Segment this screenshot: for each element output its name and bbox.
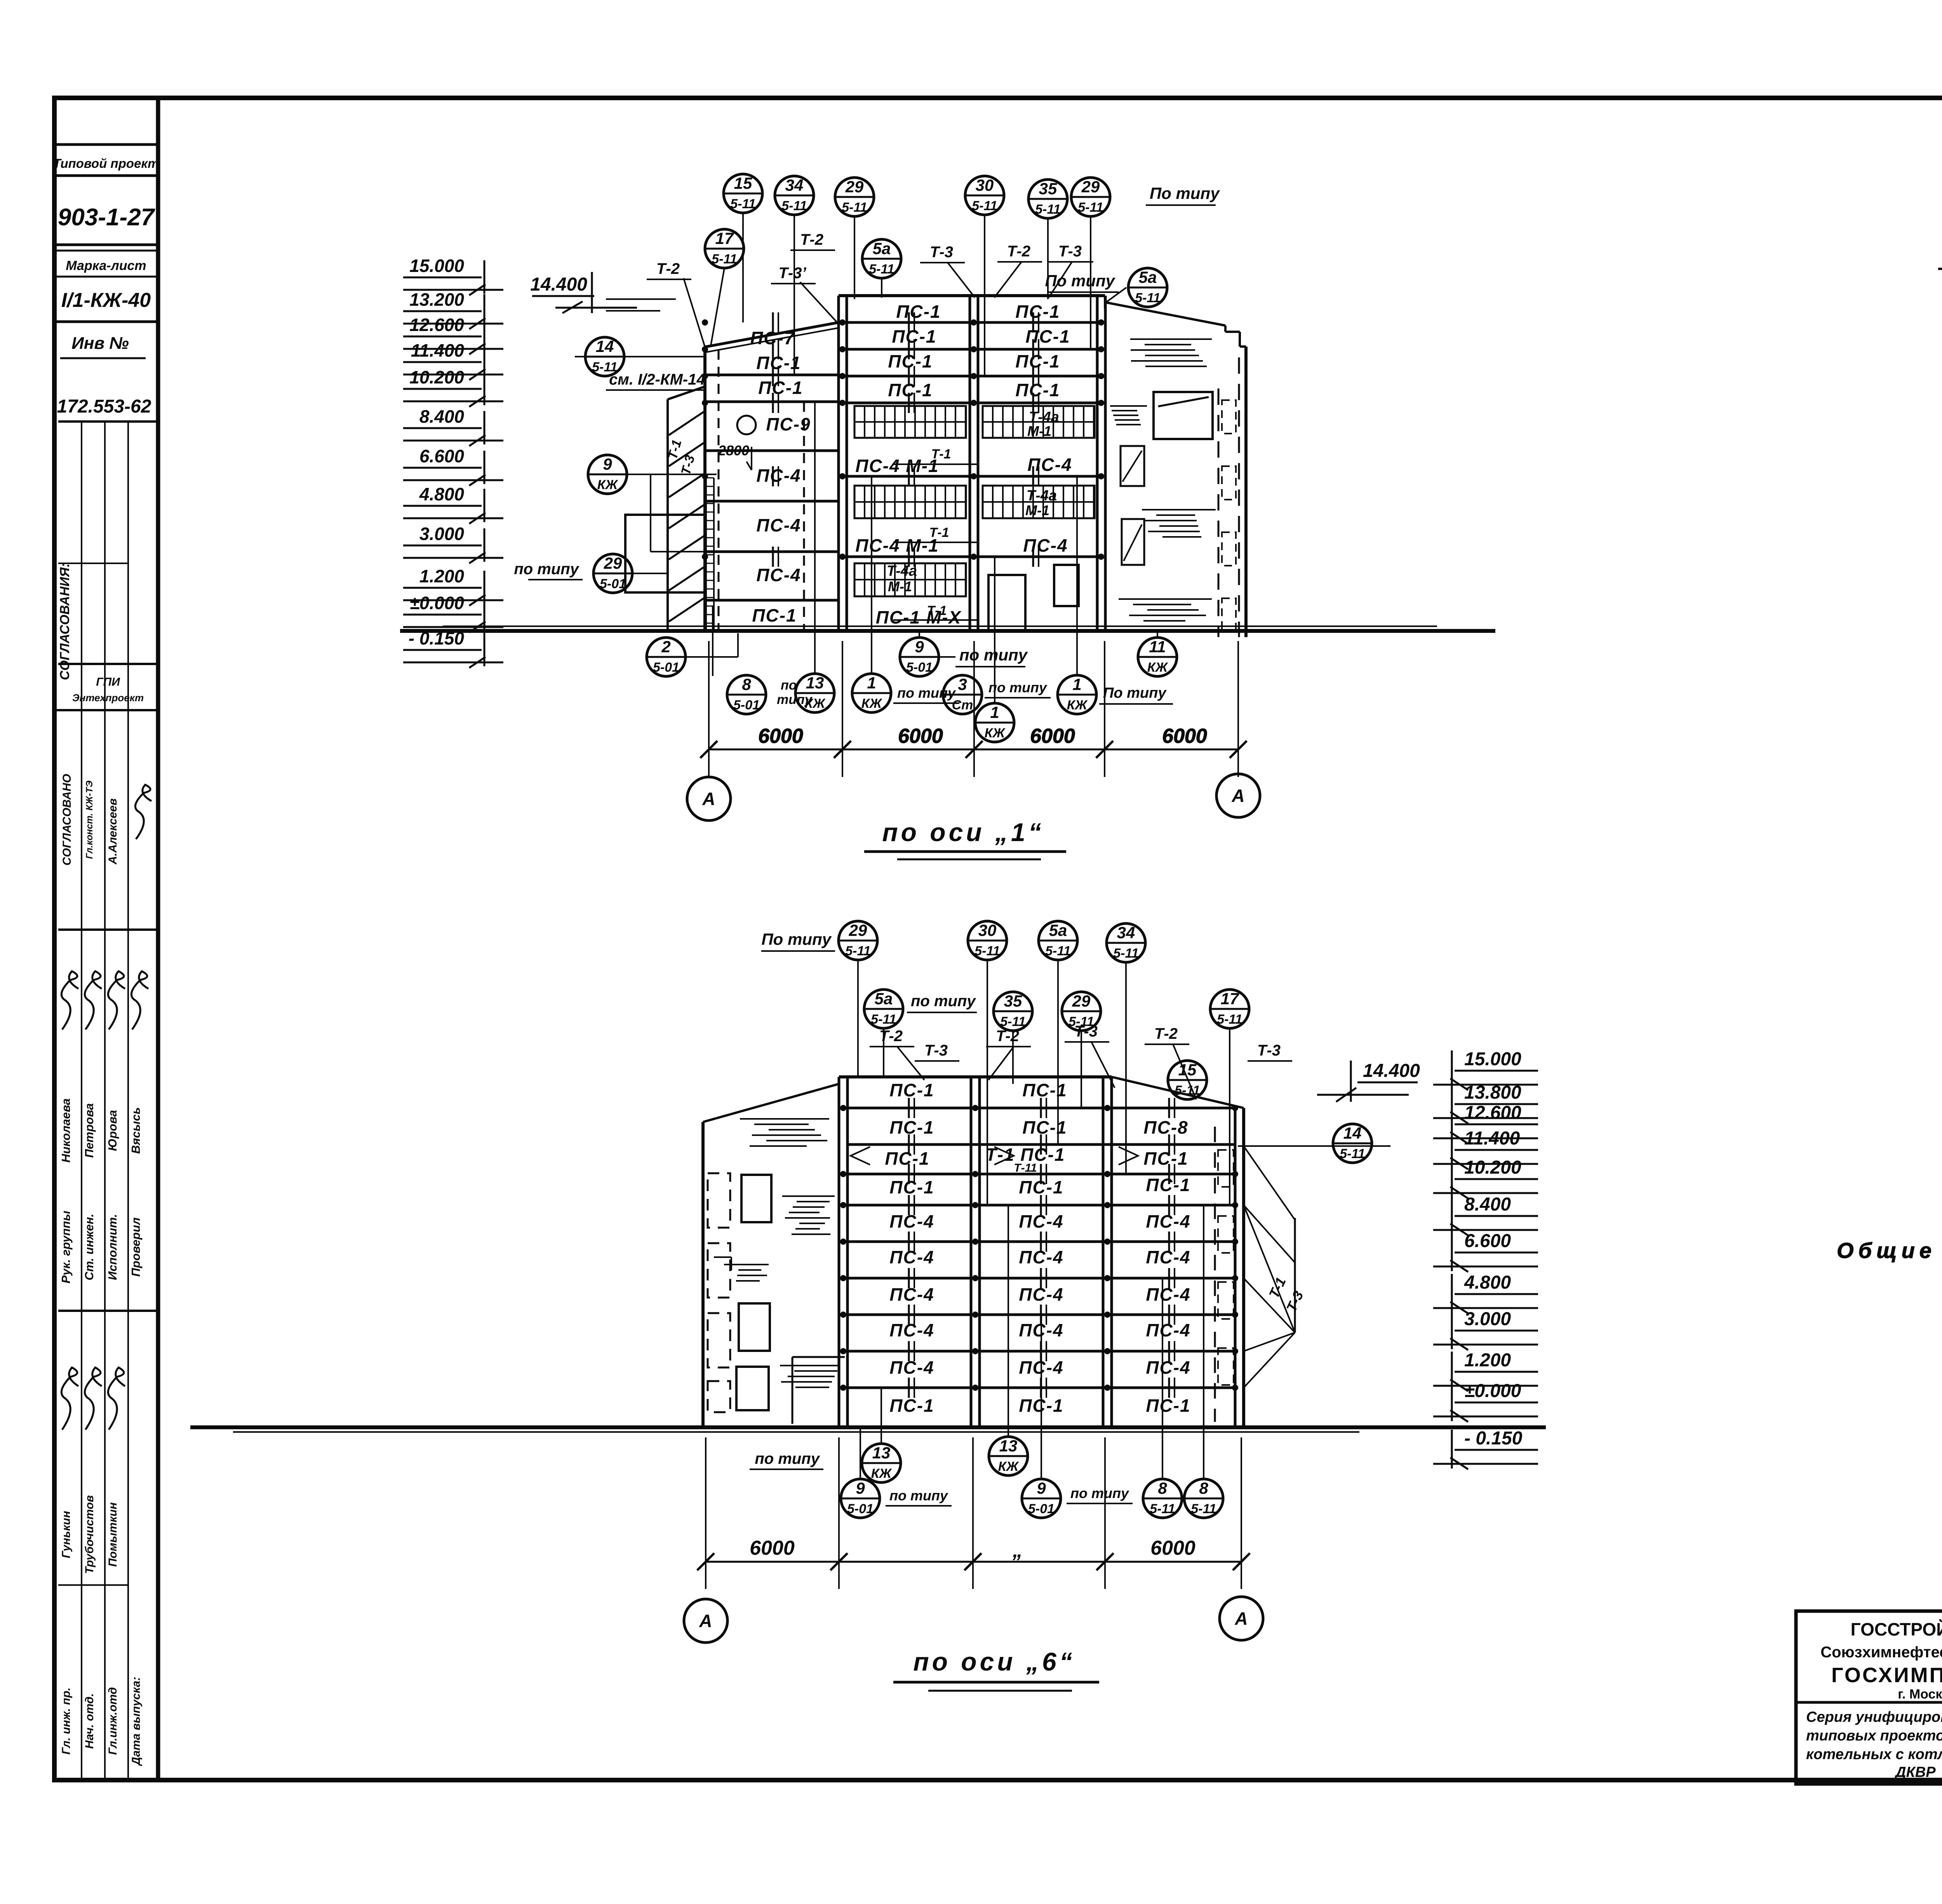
svg-text:11: 11 (1149, 638, 1166, 656)
svg-text:- 0.150: - 0.150 (1464, 1428, 1523, 1449)
title po osi 1 (864, 818, 1066, 859)
svg-text:КЖ: КЖ (985, 726, 1006, 740)
svg-text:Петрова: Петрова (82, 1103, 96, 1158)
top drawing panel grid verticals (719, 296, 1105, 631)
svg-text:12.600: 12.600 (409, 315, 464, 335)
svg-text:5-11: 5-11 (730, 197, 756, 211)
svg-text:5-11: 5-11 (1045, 944, 1071, 958)
bottom drawing building outline (703, 1077, 1244, 1427)
svg-text:35: 35 (1004, 992, 1022, 1010)
svg-text:5-11: 5-11 (1191, 1502, 1216, 1516)
bottom callouts of bottom drawing (750, 1205, 1223, 1518)
svg-text:Помыткин: Помыткин (106, 1502, 119, 1567)
svg-text:9: 9 (1037, 1479, 1046, 1497)
svg-text:ПС-4: ПС-4 (1027, 455, 1072, 475)
svg-text:Т-3: Т-3 (1058, 243, 1082, 260)
svg-text:5-11: 5-11 (1078, 200, 1103, 215)
svg-text:8.400: 8.400 (419, 406, 465, 427)
svg-text:по типу: по типу (755, 1450, 820, 1467)
svg-text:ПС-1: ПС-1 (885, 1148, 929, 1169)
svg-text:КЖ: КЖ (861, 696, 883, 711)
svg-text:Гл. инж. пр.: Гл. инж. пр. (60, 1688, 73, 1755)
svg-text:10.200: 10.200 (1464, 1157, 1521, 1178)
svg-text:ПС-4: ПС-4 (889, 1247, 934, 1267)
svg-text:по типу: по типу (897, 685, 956, 701)
svg-text:5-01: 5-01 (653, 660, 679, 675)
svg-text:М-1: М-1 (1025, 502, 1049, 518)
svg-text:М-1: М-1 (888, 578, 912, 594)
svg-text:ПС-1: ПС-1 (888, 380, 933, 400)
window band storey 1 top drawing (854, 563, 966, 596)
svg-text:±0.000: ±0.000 (1464, 1381, 1521, 1401)
window band storey 2 top drawing (854, 486, 1095, 518)
svg-text:5-11: 5-11 (781, 199, 807, 213)
svg-text:см. I/2-КМ-14: см. I/2-КМ-14 (609, 371, 705, 388)
svg-text:Вясысь: Вясысь (129, 1107, 143, 1154)
svg-text:29: 29 (1081, 178, 1100, 196)
bottom drawing mark 14.400 (1317, 1061, 1420, 1102)
bottom elevation drawing: ground line (190, 1425, 1546, 1429)
svg-text:Т-2: Т-2 (1007, 243, 1030, 260)
svg-text:Т-2: Т-2 (656, 260, 680, 277)
svg-text:типовых проектов: типовых проектов (1806, 1728, 1942, 1744)
svg-text:М-1: М-1 (1027, 423, 1051, 439)
right wing sketches top drawing (1110, 339, 1239, 637)
axis circles top drawing (687, 774, 1260, 820)
title po osi 6 (893, 1647, 1099, 1691)
svg-text:3.000: 3.000 (1464, 1309, 1511, 1329)
svg-text:ПС-4: ПС-4 (756, 515, 801, 535)
svg-text:35: 35 (1039, 179, 1057, 198)
svg-text:ПС-4 М-1: ПС-4 М-1 (855, 456, 939, 476)
svg-text:Т-3: Т-3 (930, 244, 953, 261)
svg-text:ПС-4: ПС-4 (1019, 1284, 1063, 1305)
svg-text:КЖ: КЖ (805, 696, 826, 711)
svg-text:5-11: 5-11 (1150, 1502, 1175, 1516)
svg-text:5-11: 5-11 (972, 199, 997, 213)
svg-text:14: 14 (596, 337, 614, 355)
svg-text:4.800: 4.800 (419, 484, 465, 504)
left rough wing bottom drawing (708, 1119, 845, 1424)
svg-text:ПС-1: ПС-1 (1022, 1117, 1067, 1138)
svg-text:КЖ: КЖ (998, 1459, 1020, 1474)
svg-text:ПС-1: ПС-1 (896, 301, 941, 322)
svg-text:ПС-8: ПС-8 (1143, 1117, 1188, 1138)
svg-text:8.400: 8.400 (1464, 1194, 1511, 1215)
svg-text:Союзхимнефтестройтроект: Союзхимнефтестройтроект (1820, 1644, 1942, 1661)
svg-text:5-11: 5-11 (1175, 1083, 1200, 1098)
svg-text:Т-3: Т-3 (924, 1042, 948, 1059)
svg-text:по типу: по типу (514, 561, 579, 578)
svg-text:6000: 6000 (898, 725, 943, 747)
T labels bottom drawing (870, 1023, 1292, 1061)
svg-text:ПС-4: ПС-4 (1146, 1247, 1190, 1267)
svg-text:ПС-1: ПС-1 (889, 1117, 934, 1138)
svg-text:Т-4а: Т-4а (887, 563, 917, 579)
svg-text:ПС-1: ПС-1 (758, 378, 803, 398)
panel joint ticks bottom drawing (909, 1098, 1175, 1398)
bottom drawing elevation marks column right (1433, 1049, 1538, 1090)
svg-text:Гл.конст. КЖ-ТЭ: Гл.конст. КЖ-ТЭ (84, 780, 95, 859)
bottom drawing callout circles top rows (761, 921, 1249, 1099)
frame inner left border (156, 98, 160, 1780)
svg-text:6.600: 6.600 (419, 446, 465, 466)
bottom drawing panel row lines (847, 1108, 1235, 1388)
svg-text:По типу: По типу (1103, 685, 1167, 701)
svg-text:ПС-4: ПС-4 (1146, 1284, 1190, 1305)
svg-text:ПС-1 М-Х: ПС-1 М-Х (876, 607, 962, 627)
svg-text:Гунькин: Гунькин (60, 1511, 73, 1558)
po tipu note after upper row (1146, 184, 1220, 205)
svg-text:8: 8 (742, 675, 751, 693)
svg-text:А: А (702, 789, 715, 809)
svg-text:29: 29 (849, 921, 867, 939)
svg-text:ПС-1: ПС-1 (888, 351, 933, 371)
svg-text:17: 17 (1221, 989, 1239, 1008)
svg-text:Исполнит.: Исполнит. (106, 1214, 119, 1280)
svg-text:9: 9 (856, 1479, 865, 1497)
callout po tipu 29 5-01 (514, 554, 668, 593)
svg-text:Ст. инжен.: Ст. инжен. (82, 1214, 96, 1280)
svg-text:по типу: по типу (1070, 1485, 1129, 1501)
svg-text:Т-1: Т-1 (931, 447, 951, 462)
svg-text:КЖ: КЖ (871, 1466, 893, 1481)
svg-text:ДКВР: ДКВР (1894, 1764, 1936, 1780)
svg-text:ПС-1: ПС-1 (1019, 1177, 1063, 1197)
dimension line top drawing (700, 641, 1247, 777)
top drawing elevation marks column (403, 256, 503, 295)
leader lines from callouts top drawing (606, 213, 1126, 376)
svg-text:13: 13 (999, 1437, 1018, 1455)
svg-text:14.400: 14.400 (1363, 1061, 1420, 1081)
svg-text:А: А (1234, 1608, 1248, 1629)
svg-text:ПС-1: ПС-1 (889, 1395, 934, 1416)
svg-text:15.000: 15.000 (409, 256, 464, 276)
svg-text:ПС-4: ПС-4 (889, 1357, 934, 1378)
svg-text:3: 3 (958, 675, 967, 693)
title block frame (1796, 1611, 1942, 1784)
svg-text:29: 29 (604, 554, 622, 572)
panel labels top drawing central bays (855, 301, 1072, 627)
svg-text:ПС-1: ПС-1 (1143, 1148, 1188, 1169)
joint dots top drawing (702, 319, 1104, 560)
svg-text:1: 1 (990, 703, 999, 721)
svg-text:КЖ: КЖ (1067, 698, 1088, 712)
svg-text:10.200: 10.200 (409, 367, 464, 387)
svg-text:ПС-4: ПС-4 (889, 1320, 934, 1340)
svg-text:30: 30 (978, 921, 997, 939)
svg-text:3.000: 3.000 (419, 524, 465, 544)
po tipu 5a callout right (1045, 268, 1167, 307)
svg-text:1.200: 1.200 (1464, 1350, 1511, 1371)
svg-text:ПС-4: ПС-4 (1146, 1320, 1190, 1340)
svg-text:по типу: по типу (889, 1488, 948, 1503)
svg-text:6000: 6000 (758, 725, 803, 747)
svg-text:6000: 6000 (1162, 725, 1207, 747)
svg-text:Проверил: Проверил (129, 1218, 143, 1277)
dimension line bottom drawing (697, 1437, 1250, 1589)
svg-text:13.200: 13.200 (409, 289, 464, 310)
svg-text:1: 1 (867, 674, 876, 692)
svg-text:5а: 5а (873, 239, 891, 258)
left hatched pier of top drawing (665, 387, 705, 631)
svg-text:А: А (1231, 786, 1244, 806)
svg-text:I/1-КЖ-40: I/1-КЖ-40 (61, 289, 151, 312)
svg-text:ГПИ: ГПИ (96, 676, 120, 688)
svg-text:Николаева: Николаева (59, 1098, 73, 1162)
svg-text:6000: 6000 (1030, 725, 1075, 747)
svg-text:По типу: По типу (761, 930, 832, 948)
svg-text:по типу: по типу (959, 646, 1028, 664)
svg-text:5а: 5а (1139, 268, 1157, 286)
svg-text:Общие примечания см. на ли: Общие примечания см. на листе I/1КЖ-39 (1837, 1238, 1942, 1263)
svg-text:11.400: 11.400 (411, 340, 465, 361)
svg-text:29: 29 (1072, 992, 1091, 1010)
bottom drawing grid verticals (839, 1077, 1235, 1427)
svg-text:по типу: по типу (911, 993, 976, 1010)
callout 9 KZh left (588, 455, 717, 552)
svg-text:Юрова: Юрова (106, 1110, 119, 1151)
svg-text:5-11: 5-11 (712, 252, 737, 267)
svg-text:5-11: 5-11 (869, 262, 894, 277)
svg-text:ПС-4 М-1: ПС-4 М-1 (855, 535, 939, 556)
svg-text:5-11: 5-11 (1113, 946, 1139, 961)
primechanie note (1837, 1161, 1942, 1263)
svg-text:Гл.инж.отд: Гл.инж.отд (106, 1687, 119, 1755)
svg-text:1: 1 (1072, 675, 1081, 693)
svg-text:8: 8 (1199, 1479, 1208, 1497)
svg-text:По типу: По типу (1150, 184, 1220, 202)
svg-text:8: 8 (1158, 1479, 1167, 1497)
svg-text:5-01: 5-01 (600, 577, 626, 591)
joint dots bottom drawing (840, 1105, 1238, 1391)
svg-text:17: 17 (715, 229, 734, 247)
svg-text:ПС-1: ПС-1 (889, 1177, 934, 1197)
svg-text:Т-2: Т-2 (800, 231, 823, 248)
callout 14 5-11 right of bottom drawing (1238, 1124, 1390, 1163)
svg-text:Т-3: Т-3 (1074, 1023, 1098, 1040)
svg-text:172.553-62: 172.553-62 (57, 396, 151, 417)
sidebar stamp column (53, 145, 159, 417)
svg-text:30: 30 (976, 176, 994, 194)
svg-text:ПС-4: ПС-4 (1023, 535, 1068, 556)
panel labels top drawing left bay (718, 328, 811, 625)
svg-text:5-11: 5-11 (1035, 202, 1061, 217)
svg-text:6000: 6000 (1150, 1537, 1195, 1559)
top drawing callout circles upper row (724, 174, 762, 213)
top drawing callout circles second row (705, 229, 744, 268)
svg-text:по оси „1“: по оси „1“ (882, 818, 1044, 847)
building outline top drawing (705, 296, 1246, 637)
svg-text:5-01: 5-01 (1028, 1502, 1055, 1516)
panel joint ticks top drawing (773, 312, 1039, 567)
svg-text:ПС-1: ПС-1 (1146, 1395, 1190, 1416)
right edge details bottom drawing (1215, 1127, 1307, 1422)
svg-text:29: 29 (845, 178, 864, 196)
svg-text:ПС-4: ПС-4 (1146, 1357, 1190, 1378)
svg-text:- 0.150: - 0.150 (409, 628, 465, 648)
svg-text:ПС-1: ПС-1 (889, 1080, 934, 1100)
window opening right bay bottom (1054, 565, 1079, 606)
svg-text:КЖ: КЖ (597, 477, 619, 492)
svg-text:5-11: 5-11 (1340, 1146, 1365, 1161)
ladder strip along left face (706, 478, 714, 629)
axis circles bottom drawing (684, 1597, 1263, 1643)
svg-text:13: 13 (806, 674, 824, 692)
window band storey 3 top drawing (854, 406, 1095, 439)
svg-text:ПС-4: ПС-4 (1019, 1247, 1063, 1267)
svg-text:Т-1: Т-1 (929, 525, 949, 540)
svg-text:5-01: 5-01 (847, 1502, 874, 1516)
svg-text:11.400: 11.400 (1464, 1128, 1520, 1149)
svg-text:Т-3’: Т-3’ (778, 265, 806, 282)
svg-text:34: 34 (1117, 923, 1135, 942)
svg-text:А.Алексеев: А.Алексеев (106, 798, 119, 865)
svg-text:5-11: 5-11 (1000, 1014, 1026, 1029)
bottom callouts of top drawing (647, 403, 1177, 742)
svg-text:6.600: 6.600 (1464, 1231, 1511, 1251)
svg-text:котельных с котлами: котельных с котлами (1806, 1746, 1942, 1763)
svg-text:А: А (699, 1611, 712, 1631)
svg-text:ПС-4: ПС-4 (756, 565, 801, 585)
svg-text:15: 15 (734, 174, 752, 192)
svg-text:5а: 5а (875, 989, 893, 1008)
svg-text:14.400: 14.400 (530, 274, 587, 295)
svg-text:5-11: 5-11 (1217, 1012, 1242, 1027)
title block organization (1820, 1619, 1942, 1702)
svg-text:ПС-4: ПС-4 (1146, 1211, 1190, 1232)
top drawing mark 14.400 (530, 272, 637, 313)
svg-text:9: 9 (915, 638, 924, 656)
svg-text:13.800: 13.800 (1464, 1082, 1521, 1103)
svg-text:Энтехпроект: Энтехпроект (72, 692, 144, 704)
svg-text:СОГЛАСОВАНИЯ:: СОГЛАСОВАНИЯ: (57, 563, 72, 680)
svg-text:12.600: 12.600 (1464, 1103, 1521, 1123)
panel labels bottom drawing (851, 1080, 1191, 1416)
svg-text:5-11: 5-11 (1135, 291, 1161, 305)
svg-text:ПС-9: ПС-9 (766, 414, 811, 434)
callout 14 5-11 left (575, 337, 705, 390)
svg-text:ПС-1: ПС-1 (1022, 1080, 1067, 1100)
svg-text:ГОССТРОЙ СССР: ГОССТРОЙ СССР (1851, 1619, 1942, 1639)
svg-text:9: 9 (603, 455, 612, 473)
svg-text:Ст: Ст (952, 698, 973, 712)
svg-text:ПС-1: ПС-1 (752, 605, 797, 625)
svg-text:„: „ (1012, 1539, 1023, 1562)
svg-text:Марка-лист: Марка-лист (66, 258, 146, 273)
svg-text:ГОСХИМПРОЕКТ: ГОСХИМПРОЕКТ (1831, 1664, 1942, 1687)
svg-text:Т-1: Т-1 (927, 603, 947, 618)
leaders bottom drawing top (858, 960, 1230, 1205)
svg-text:г. Москва: г. Москва (1898, 1687, 1942, 1702)
svg-text:5-01: 5-01 (733, 698, 760, 712)
svg-text:Т-11: Т-11 (1014, 1162, 1037, 1174)
title block series note (1806, 1709, 1942, 1780)
svg-text:Трубочистов: Трубочистов (83, 1495, 96, 1574)
svg-text:ПС-4: ПС-4 (889, 1211, 934, 1232)
svg-text:14: 14 (1343, 1124, 1362, 1142)
svg-text:5-11: 5-11 (974, 944, 1000, 958)
svg-text:Типовой проект: Типовой проект (53, 156, 159, 171)
svg-text:Инв №: Инв № (71, 334, 129, 353)
top elevation drawing: ground line (400, 629, 1495, 633)
top drawing panel rows left bay (705, 375, 839, 600)
svg-text:ПС-4: ПС-4 (1019, 1211, 1063, 1232)
svg-text:ПС-1: ПС-1 (1146, 1175, 1190, 1195)
top drawing panel rows central bays (847, 322, 1097, 557)
svg-text:5-11: 5-11 (871, 1012, 896, 1027)
svg-text:903-1-27: 903-1-27 (58, 204, 155, 231)
svg-text:Т-3: Т-3 (1257, 1042, 1281, 1059)
svg-text:Рук. группы: Рук. группы (59, 1211, 73, 1283)
bracket box left of pier (625, 515, 705, 592)
svg-text:4.800: 4.800 (1464, 1272, 1511, 1293)
T labels top drawing (647, 231, 1093, 284)
svg-text:1.200: 1.200 (419, 566, 465, 586)
svg-text:по типу: по типу (988, 679, 1048, 695)
svg-text:Дата выпуска:: Дата выпуска: (130, 1677, 143, 1766)
door opening top drawing (988, 575, 1025, 631)
svg-text:по оси „6“: по оси „6“ (913, 1647, 1075, 1676)
svg-text:СОГЛАСОВАНО: СОГЛАСОВАНО (61, 774, 73, 866)
svg-text:6000: 6000 (750, 1537, 795, 1559)
svg-text:13: 13 (872, 1444, 891, 1462)
svg-text:КЖ: КЖ (1147, 660, 1169, 675)
svg-text:Нач. отд.: Нач. отд. (83, 1693, 96, 1749)
svg-text:±0.000: ±0.000 (410, 593, 465, 613)
svg-text:34: 34 (785, 176, 804, 194)
window band transoms top drawing (854, 422, 1095, 580)
svg-text:5-01: 5-01 (906, 660, 933, 675)
spec table header (1938, 235, 1942, 316)
svg-text:2800: 2800 (718, 442, 749, 458)
svg-text:ПС-4: ПС-4 (889, 1284, 934, 1305)
svg-text:5-11: 5-11 (842, 200, 867, 215)
svg-text:5а: 5а (1049, 921, 1067, 939)
svg-text:15.000: 15.000 (1464, 1049, 1521, 1070)
svg-text:Т-2: Т-2 (1154, 1025, 1178, 1042)
svg-text:Т-2: Т-2 (996, 1028, 1019, 1045)
svg-text:5-11: 5-11 (845, 944, 871, 958)
svg-text:2: 2 (661, 638, 670, 656)
sidebar approvals table (54, 422, 158, 1779)
svg-text:Серия унифицированных: Серия унифицированных (1806, 1709, 1942, 1725)
